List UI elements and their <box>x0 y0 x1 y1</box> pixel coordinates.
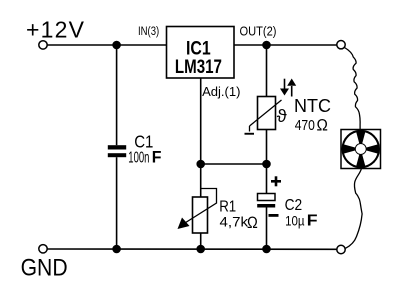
svg-text:+12V: +12V <box>26 16 85 42</box>
svg-text:Ω: Ω <box>317 116 328 135</box>
capacitor C2 (electrolytic) <box>257 194 275 208</box>
svg-text:100n: 100n <box>128 149 149 166</box>
wire +12V to IC IN <box>47 44 166 46</box>
junction C1 top <box>112 41 121 50</box>
svg-text:10µ: 10µ <box>285 213 304 229</box>
GND wire <box>47 248 337 250</box>
junction NTC top <box>262 41 271 50</box>
NTC value 470 ohm <box>295 116 328 135</box>
+12V terminal <box>39 41 47 49</box>
C1 value 100nF <box>128 147 161 166</box>
GND terminal <box>39 245 47 253</box>
svg-text:Ω: Ω <box>247 214 258 232</box>
flexible wire to fan (top) <box>345 48 361 130</box>
C2 value 10uF <box>285 213 317 230</box>
junction C2 gnd <box>262 245 271 254</box>
junction C1 gnd <box>112 245 121 254</box>
svg-text:4,7k: 4,7k <box>220 214 249 229</box>
thermistor NTC <box>245 97 282 135</box>
wire mid horizontal <box>201 163 267 165</box>
wire R1 bottom <box>200 233 202 249</box>
wire Adj node to R1 <box>200 164 202 197</box>
svg-text:LM317: LM317 <box>175 57 222 78</box>
wire C1 bottom <box>116 157 118 249</box>
wire node to C2 <box>266 164 268 194</box>
svg-text:OUT(2): OUT(2) <box>240 24 277 38</box>
fan M1 <box>341 130 381 169</box>
NTC arrows <box>280 79 296 97</box>
svg-text:F: F <box>307 213 318 230</box>
junction R1 gnd <box>196 245 205 254</box>
wire C2 bottom <box>266 208 268 250</box>
junction C2 top <box>262 160 271 169</box>
svg-text:F: F <box>152 147 162 166</box>
svg-text:R1: R1 <box>219 198 236 215</box>
junction Adj node <box>196 160 205 169</box>
C2 minus sign <box>269 214 279 217</box>
svg-text:IN(3): IN(3) <box>138 26 159 38</box>
capacitor C1 <box>108 145 126 157</box>
svg-text:470: 470 <box>295 118 315 134</box>
wire NTC branch <box>266 45 268 97</box>
op-amp/regulator IC1 box <box>167 27 235 79</box>
output terminal circle <box>337 41 345 49</box>
wire IC OUT to terminal <box>234 44 337 46</box>
svg-text:GND: GND <box>21 254 68 281</box>
trimmer R1 <box>178 189 217 234</box>
C2 plus sign <box>271 176 281 186</box>
R1 value 4,7k ohm <box>220 214 258 232</box>
flexible wire from fan (bottom) <box>346 169 363 249</box>
svg-text:ϑ: ϑ <box>277 106 287 126</box>
wire NTC bottom <box>266 130 268 165</box>
svg-text:NTC: NTC <box>294 95 331 116</box>
wire Adj pin <box>200 78 202 164</box>
ground connector circle bottom right <box>337 245 345 253</box>
svg-text:Adj.(1): Adj.(1) <box>202 84 240 99</box>
wire C1 branch top <box>116 45 118 145</box>
svg-text:C1: C1 <box>134 131 153 151</box>
